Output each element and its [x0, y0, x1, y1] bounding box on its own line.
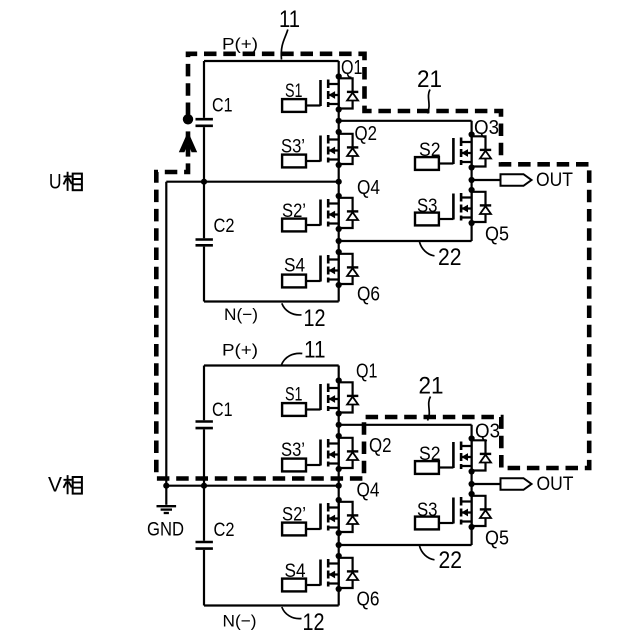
svg-text:S2’: S2’ [282, 504, 306, 525]
svg-text:Q1: Q1 [341, 56, 363, 79]
svg-text:C2: C2 [214, 520, 235, 541]
svg-text:S3’: S3’ [281, 440, 305, 461]
svg-text:Q4: Q4 [357, 176, 380, 199]
svg-text:Q2: Q2 [369, 434, 392, 457]
svg-text:12: 12 [304, 305, 326, 332]
svg-text:S3: S3 [417, 196, 438, 217]
svg-text:S2: S2 [419, 444, 441, 465]
svg-text:S1: S1 [285, 384, 303, 405]
svg-text:U: U [49, 170, 62, 193]
svg-text:N(−): N(−) [224, 305, 258, 324]
svg-text:Q5: Q5 [485, 222, 509, 245]
svg-text:S3: S3 [417, 500, 438, 521]
svg-text:22: 22 [438, 244, 462, 271]
svg-text:C1: C1 [212, 400, 233, 421]
svg-text:Q3: Q3 [474, 116, 499, 139]
svg-text:12: 12 [303, 609, 325, 636]
svg-text:S2: S2 [419, 140, 441, 161]
svg-text:S4: S4 [284, 255, 305, 276]
svg-text:Q5: Q5 [485, 526, 509, 549]
svg-text:11: 11 [279, 6, 300, 33]
svg-text:C2: C2 [214, 216, 235, 237]
svg-text:P(+): P(+) [222, 341, 258, 360]
svg-text:Q6: Q6 [357, 587, 380, 610]
svg-text:21: 21 [419, 373, 444, 400]
svg-text:21: 21 [417, 66, 442, 93]
svg-text:OUT: OUT [537, 473, 574, 495]
svg-text:V: V [48, 474, 62, 497]
svg-text:GND: GND [147, 519, 184, 541]
svg-text:Q4: Q4 [357, 479, 380, 502]
svg-text:OUT: OUT [536, 169, 573, 191]
svg-text:Q6: Q6 [357, 282, 380, 305]
svg-text:S3’: S3’ [281, 136, 305, 157]
svg-text:22: 22 [439, 547, 463, 574]
svg-text:Q1: Q1 [356, 359, 378, 382]
svg-text:Q2: Q2 [355, 122, 378, 145]
svg-text:Q3: Q3 [475, 419, 500, 442]
svg-text:P(+): P(+) [222, 35, 258, 54]
svg-text:S4: S4 [285, 561, 306, 582]
svg-text:S2’: S2’ [282, 201, 306, 222]
svg-text:C1: C1 [212, 96, 233, 117]
svg-text:11: 11 [304, 337, 326, 364]
svg-text:N(−): N(−) [223, 612, 257, 631]
svg-text:S1: S1 [285, 81, 303, 102]
